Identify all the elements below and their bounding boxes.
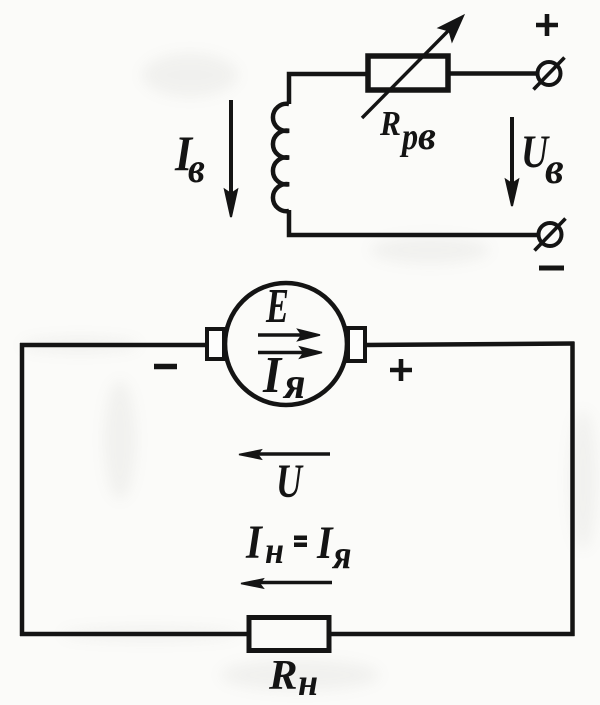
- polarity label + (top): [536, 14, 558, 36]
- svg-text:в: в: [418, 113, 436, 158]
- terminal minus (circle with slash): [535, 219, 566, 251]
- label Rn: [268, 652, 318, 704]
- arrow E direction: [258, 330, 320, 341]
- svg-text:н: н: [265, 529, 284, 571]
- svg-text:I: I: [262, 346, 283, 404]
- terminal plus (circle with slash): [534, 58, 565, 90]
- wire: left rail vertical: [20, 343, 25, 636]
- svg-text:я: я: [331, 533, 351, 577]
- svg-text:R: R: [268, 652, 298, 699]
- polarity label - (below minus terminal): [539, 266, 564, 271]
- brush right: [348, 328, 365, 361]
- current arrow Iv (field current, downward): [225, 100, 237, 217]
- svg-text:н: н: [298, 662, 318, 704]
- svg-text:R: R: [379, 105, 401, 144]
- value label Rpv: [379, 105, 436, 158]
- inductor: field winding coil: [273, 104, 289, 211]
- voltage arrow Uv (downward): [506, 117, 518, 206]
- resistor Rn (load): [249, 618, 329, 651]
- label Iv: [174, 126, 205, 191]
- label In = Ia: [245, 515, 351, 578]
- svg-text:в: в: [188, 144, 205, 191]
- wire: coil bottom to minus terminal: [289, 210, 538, 235]
- wire: rheostat to plus terminal: [448, 71, 537, 76]
- label Uv: [521, 126, 564, 193]
- label E (emf): [265, 279, 289, 333]
- label Ia (armature current): [262, 346, 305, 409]
- wire: right brush to right rail: [365, 344, 574, 346]
- svg-text:U: U: [276, 455, 304, 508]
- svg-text:я: я: [282, 360, 305, 408]
- current arrow In (leftward): [241, 579, 332, 588]
- svg-text:I: I: [316, 517, 334, 569]
- label U: [276, 455, 304, 508]
- voltage arrow U (leftward): [239, 450, 330, 459]
- brush left: [207, 329, 224, 359]
- generator G (machine circle): [225, 283, 347, 405]
- wire field top: coil top to rheostat: [289, 74, 367, 104]
- resistor Rpv (field rheostat body): [368, 56, 448, 90]
- wire: right rail vertical: [570, 342, 575, 637]
- arrow Ia direction: [258, 347, 322, 358]
- svg-text:р: р: [399, 116, 418, 158]
- wire: bottom rail: [20, 632, 575, 637]
- polarity label + (right of generator): [390, 359, 412, 381]
- wire: left brush to left rail: [20, 343, 207, 348]
- svg-text:I: I: [245, 515, 263, 569]
- polarity label - (left of generator): [154, 364, 177, 369]
- svg-text:E: E: [265, 279, 289, 333]
- arrow: rheostat adjustment diagonal: [362, 15, 464, 118]
- svg-text:в: в: [545, 145, 564, 193]
